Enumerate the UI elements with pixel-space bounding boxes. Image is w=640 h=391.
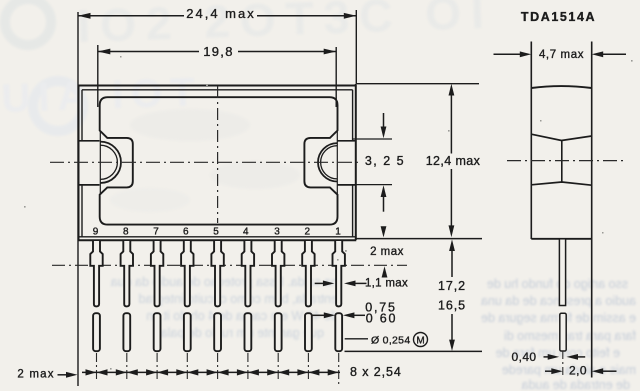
svg-text:M: M (416, 335, 424, 346)
svg-text:sso artigo do fundo hu de: sso artigo do fundo hu de (487, 277, 628, 291)
svg-text:audio a presenca de da una: audio a presenca de da una (481, 294, 636, 308)
svg-text:12,4 max: 12,4 max (426, 154, 481, 168)
bleed paragraph right (481, 277, 636, 391)
right slot mouth edges (338, 141, 357, 185)
side lower chamfer line (531, 182, 591, 185)
right mounting hole arcs (318, 143, 337, 181)
pin 8 (121, 241, 133, 351)
svg-text:8: 8 (123, 227, 129, 238)
svg-text:0 60: 0 60 (366, 312, 398, 326)
svg-text:9: 9 (93, 227, 99, 238)
svg-text:24,4 max: 24,4 max (186, 6, 255, 21)
pin centerline dashes below tips (97, 353, 339, 385)
pin number labels (93, 227, 342, 238)
extension line right x=356 (355, 10, 357, 84)
side bottom edge (531, 238, 591, 240)
side mid vertical line (561, 141, 563, 183)
svg-text:6: 6 (183, 227, 189, 238)
dimension 24,4 max line (78, 15, 356, 17)
2 max right: down arrow (383, 228, 385, 229)
bleed paragraph left (111, 275, 338, 340)
3,25 extension lines (353, 138, 392, 140)
extension lines 19,8 (97, 45, 99, 107)
pin 3 (272, 241, 284, 351)
2 max bottom-left arrow (58, 374, 68, 376)
2 max right: up arrow (384, 275, 386, 277)
tab rim inner line (78, 90, 356, 237)
0,75 / 0,60 arrows (311, 314, 325, 316)
left slot mouth edges (78, 141, 100, 185)
svg-text:19,8: 19,8 (203, 44, 234, 59)
8 x 2,54 dimension row (82, 371, 340, 373)
svg-text:16,5: 16,5 (438, 299, 466, 313)
left mounting hole arcs (100, 142, 121, 183)
shoulder bottom dash line (52, 264, 407, 266)
svg-text:17,2: 17,2 (438, 279, 466, 293)
diameter leader line (345, 338, 368, 340)
right hole flat side line (336, 131, 338, 194)
svg-text:0,40: 0,40 (512, 350, 537, 364)
side pin centerline dash (562, 351, 564, 377)
vertical centerline (217, 86, 219, 223)
scan specks (24, 56, 633, 370)
svg-text:1: 1 (335, 227, 341, 238)
pin tip line (345, 350, 483, 352)
svg-text:3: 3 (274, 227, 280, 238)
12,4 top extension line (357, 83, 479, 85)
side pin lower part (560, 313, 566, 351)
4,7 max left arrow (494, 53, 522, 55)
side centerline (507, 160, 627, 162)
tab outer outline (78, 84, 356, 240)
dimension 19,8 line (98, 51, 336, 53)
svg-text:e assim de forma segura de: e assim de forma segura de (481, 311, 636, 325)
1,1 max arrows (315, 282, 324, 284)
left hole flat side line (99, 131, 101, 194)
svg-text:4,7 max: 4,7 max (539, 49, 584, 61)
seating plane line (356, 238, 482, 240)
plastic body outline with slot cutouts (100, 97, 338, 224)
0,40 arrows (544, 356, 550, 358)
pin 2 (302, 241, 314, 351)
svg-text:1,1 max: 1,1 max (365, 278, 408, 290)
svg-text:2 max: 2 max (17, 369, 54, 381)
pin 9 (90, 241, 102, 351)
svg-text:2 max: 2 max (370, 246, 404, 258)
svg-text:8 x 2,54: 8 x 2,54 (350, 365, 402, 379)
pin 6 (181, 241, 193, 351)
svg-text:2,0: 2,0 (569, 364, 587, 378)
svg-text:2: 2 (305, 227, 311, 238)
pin 5 (211, 241, 223, 351)
bleed-through ring mid-left (33, 81, 83, 131)
pin 1 (333, 241, 345, 351)
3,25 arrow lower (383, 197, 385, 212)
svg-text:Ø 0,254: Ø 0,254 (371, 335, 410, 347)
17,2 16,5 dimension vertical (451, 249, 453, 277)
extension line left x=78 full height (77, 12, 79, 386)
side upper chamfer line (531, 134, 591, 140)
side left edge + extension (530, 42, 532, 240)
4,7 max right arrow (602, 53, 626, 55)
pin 4 (242, 241, 254, 351)
3,25 arrow upper (383, 113, 385, 128)
svg-text:4: 4 (243, 227, 249, 238)
bleed-through big ring top-left (5, 0, 51, 45)
svg-text:TDA1514A: TDA1514A (521, 10, 596, 24)
side pin upper part (559, 239, 565, 306)
svg-text:de entrada de auda: de entrada de auda (522, 378, 630, 391)
svg-text:na saida. Essa protecao de aud: na saida. Essa protecao de audio da qua (111, 275, 338, 289)
svg-text:7: 7 (153, 227, 159, 238)
pin 7 (151, 241, 163, 351)
side top edge (531, 86, 591, 88)
2,0 arrows (545, 370, 553, 372)
svg-text:5: 5 (213, 227, 219, 238)
svg-text:3, 2 5: 3, 2 5 (365, 154, 405, 168)
12,4 dimension vertical (450, 93, 452, 154)
svg-text:fara para tras mesmo di: fara para tras mesmo di (504, 329, 636, 343)
horizontal centerline (50, 161, 361, 163)
side right edge + extensions (591, 42, 593, 378)
